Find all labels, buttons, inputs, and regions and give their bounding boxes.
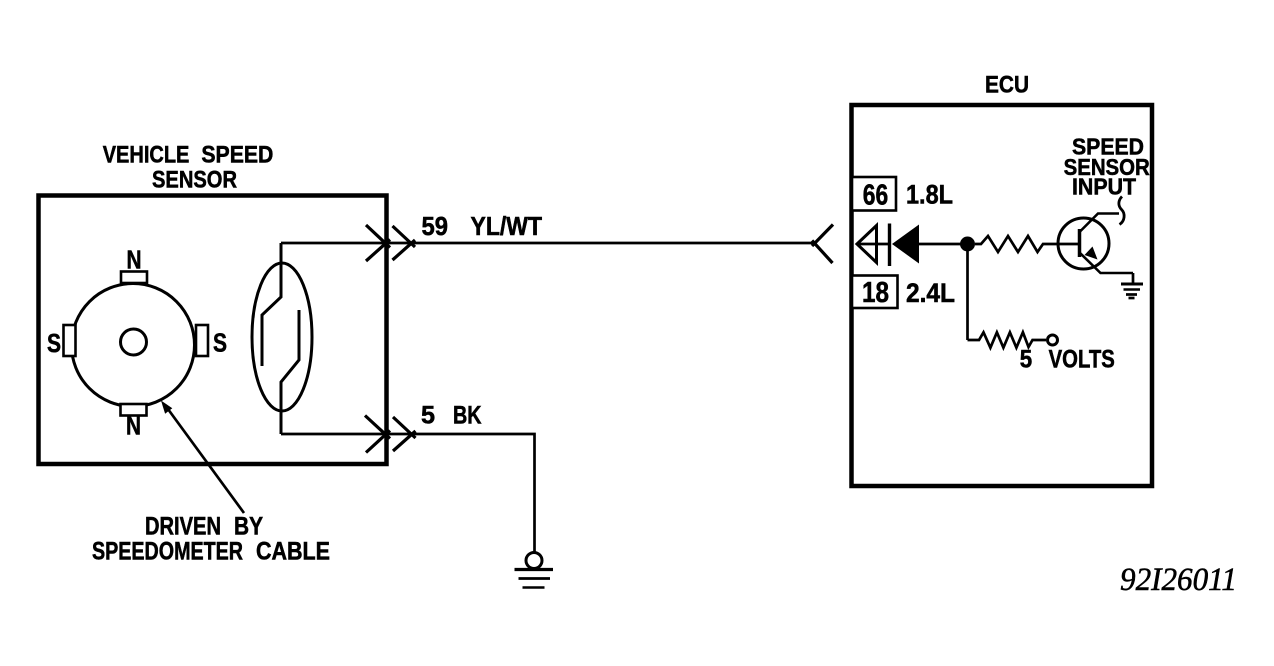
svg-text:1.8L: 1.8L bbox=[906, 180, 953, 210]
connector chevron 2 lower bbox=[393, 417, 416, 451]
svg-text:SPEEDOMETER: SPEEDOMETER bbox=[92, 538, 243, 566]
svg-text:BK: BK bbox=[453, 402, 482, 430]
svg-text:59: 59 bbox=[422, 211, 449, 241]
wire node down to 5V branch bbox=[966, 251, 969, 340]
resistor R2 (5 volts) bbox=[968, 332, 1047, 347]
rotor circle bbox=[72, 284, 195, 407]
line through open triangle bbox=[857, 243, 888, 246]
svg-text:INPUT: INPUT bbox=[1072, 174, 1136, 200]
diode bar bbox=[888, 224, 891, 267]
svg-text:5: 5 bbox=[421, 402, 435, 430]
connector open triangle bbox=[857, 226, 877, 263]
ground (ECU) bar 4 bbox=[1129, 297, 1135, 300]
pin box 66 bbox=[852, 177, 896, 211]
svg-text:YL/WT: YL/WT bbox=[471, 211, 543, 241]
connector chevron 1 lower bbox=[365, 416, 390, 453]
diode D1 filled triangle bbox=[892, 225, 919, 264]
arrowhead bbox=[161, 401, 172, 414]
wire 5 BK bbox=[281, 434, 535, 552]
svg-text:ECU: ECU bbox=[985, 72, 1029, 99]
svg-text:S: S bbox=[213, 328, 227, 358]
transistor emitter bbox=[1080, 253, 1133, 273]
junction node bbox=[960, 237, 975, 252]
pole tab N bottom bbox=[121, 404, 147, 416]
ground (ECU) bar 1 bbox=[1121, 283, 1143, 286]
transistor Q1 circle bbox=[1058, 218, 1109, 269]
svg-text:S: S bbox=[47, 328, 61, 358]
arrow line to rotor bbox=[165, 405, 244, 513]
chassis ground bar 2 bbox=[519, 577, 551, 580]
wire upper lead to box edge bbox=[281, 242, 386, 245]
svg-text:5: 5 bbox=[1020, 346, 1032, 374]
transistor base bar bbox=[1078, 229, 1082, 257]
svg-text:DRIVEN: DRIVEN bbox=[145, 513, 221, 541]
svg-text:N: N bbox=[126, 411, 141, 441]
chassis ground bar 1 bbox=[515, 568, 554, 571]
vehicle speed sensor box bbox=[39, 196, 387, 465]
svg-text:VOLTS: VOLTS bbox=[1049, 346, 1115, 374]
wire emitter to ground bbox=[1132, 273, 1135, 284]
connector chevron 1 upper bbox=[366, 225, 390, 261]
connector chevron 2 upper bbox=[393, 226, 416, 260]
pole tab N top bbox=[121, 272, 147, 284]
svg-text:92I26011: 92I26011 bbox=[1120, 562, 1237, 598]
svg-text:SPEED: SPEED bbox=[201, 142, 273, 169]
coil winding lower stroke + bottom lead bbox=[281, 310, 299, 434]
svg-text:CABLE: CABLE bbox=[256, 538, 330, 566]
transistor collector bbox=[1080, 214, 1119, 232]
svg-text:2.4L: 2.4L bbox=[906, 278, 955, 308]
pin box 18 bbox=[852, 276, 898, 309]
wire diode to node bbox=[919, 243, 962, 246]
coil winding upper stroke + top lead bbox=[262, 243, 281, 366]
chassis ground circle bbox=[526, 553, 542, 569]
svg-text:SENSOR: SENSOR bbox=[152, 167, 237, 194]
rotor shaft circle bbox=[121, 329, 147, 355]
svg-text:BY: BY bbox=[234, 513, 263, 541]
svg-text:VEHICLE: VEHICLE bbox=[103, 142, 190, 169]
ECU-side harness connector chevron bbox=[812, 225, 833, 264]
pole tab S right bbox=[196, 325, 208, 356]
ECU box bbox=[852, 105, 1153, 486]
resistor R1 (to transistor base) bbox=[975, 236, 1079, 252]
wire 59 YL/WT bbox=[386, 242, 815, 245]
ground (ECU) bar 2 bbox=[1124, 288, 1141, 291]
collector hook to speed sensor input bbox=[1119, 197, 1124, 225]
svg-text:66: 66 bbox=[863, 180, 888, 212]
svg-text:18: 18 bbox=[862, 277, 889, 309]
pickup coil ellipse bbox=[252, 263, 312, 411]
svg-text:N: N bbox=[127, 245, 142, 275]
chassis ground bar 3 bbox=[523, 586, 545, 589]
pole tab S left bbox=[64, 325, 76, 356]
5V terminal circle bbox=[1048, 335, 1058, 345]
emitter arrowhead bbox=[1085, 247, 1098, 260]
ground (ECU) bar 3 bbox=[1126, 293, 1137, 296]
